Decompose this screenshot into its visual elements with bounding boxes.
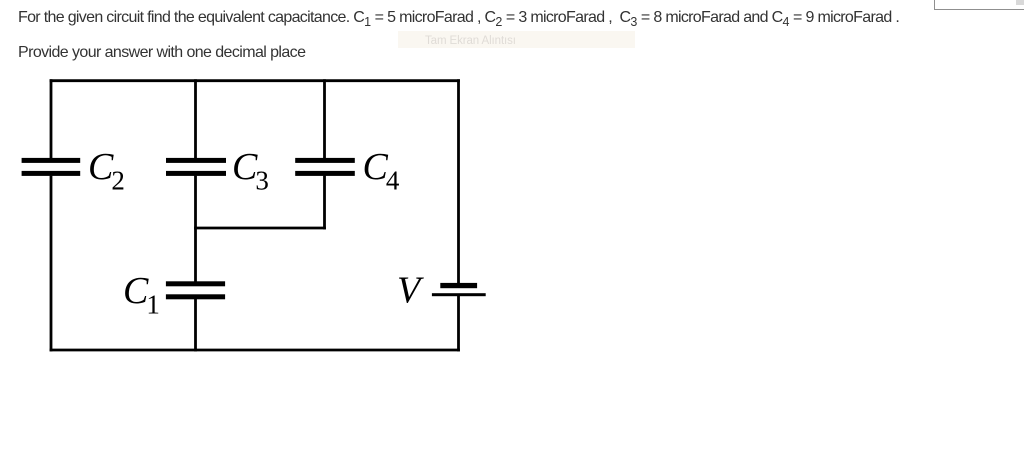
problem statement line 2 xyxy=(18,44,305,62)
capacitor C3 plates xyxy=(166,158,226,163)
capacitor C4 plates xyxy=(295,158,355,163)
wire: right vertical lower (battery to bottom bus) xyxy=(457,295,460,351)
wire: C4 branch vertical upper (top bus to C4 top plate) xyxy=(323,79,326,158)
wire: middle vertical middle (C3 bottom plate to C1 top plate) xyxy=(194,176,197,282)
capacitor C1 plates xyxy=(166,281,225,286)
wire: junction horizontal (node joining C3/C4 bottoms) xyxy=(194,227,326,230)
problem statement line 1 xyxy=(18,9,899,27)
top-right partial window box xyxy=(934,0,1024,10)
wire: middle vertical lower (C1 bottom plate to bottom bus) xyxy=(194,299,197,351)
svg-text:V: V xyxy=(397,270,424,312)
svg-text:C3: C3 xyxy=(232,146,269,196)
wire: left vertical upper (to C2 top plate) xyxy=(50,79,53,158)
svg-text:C1: C1 xyxy=(123,270,160,320)
wire: right vertical upper (top bus to battery) xyxy=(457,79,460,283)
top-right gray button fill xyxy=(1016,0,1024,5)
wire: top horizontal bus xyxy=(50,79,460,82)
capacitor C2 plates xyxy=(22,158,81,163)
battery V plates xyxy=(440,283,477,288)
wire: left vertical lower (C2 bottom plate to bottom bus) xyxy=(50,176,53,352)
wire: bottom horizontal bus xyxy=(50,349,460,352)
watermark 'Tam Ekran Alintisi' xyxy=(398,31,635,48)
wire: middle vertical upper (top bus to C3 top plate) xyxy=(194,79,197,158)
wire: C4 branch vertical lower (C4 bottom plate to junction wire) xyxy=(323,176,326,230)
svg-text:C4: C4 xyxy=(363,146,400,196)
svg-text:C2: C2 xyxy=(88,146,125,196)
